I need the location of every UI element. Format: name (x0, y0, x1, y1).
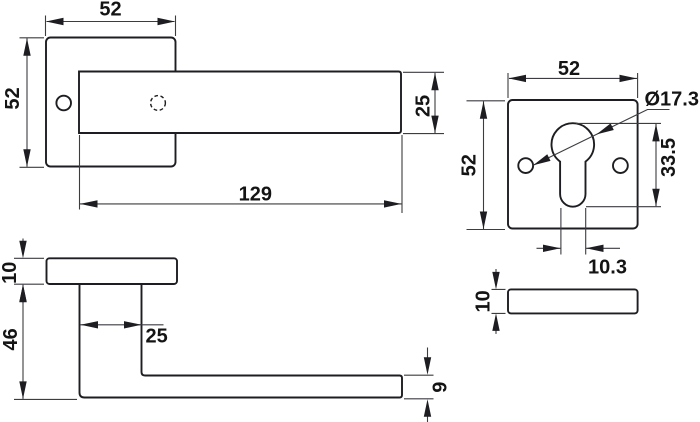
dim 25 right: extension lines (403, 72, 444, 133)
dim 33.5 right: up arrow (652, 124, 659, 141)
dim 52 left escutcheon: up arrow (480, 101, 487, 119)
dim 46: dimension line (22, 285, 24, 399)
screw hole left, escutcheon (518, 158, 533, 173)
dim 52 top: left arrow (46, 18, 64, 25)
leader arrow at euro circle edge (597, 123, 614, 134)
dim 10 escutcheon side: bottom arrow (outside, points up) (495, 330, 497, 334)
dim 52 left escutcheon: down arrow (480, 212, 487, 230)
rose square, front view (46, 38, 176, 167)
dim 46: up arrow (19, 285, 26, 303)
dim 52 top: dimension line (47, 21, 175, 23)
euro profile cylinder cutout (552, 123, 595, 206)
screw hole, rose front (56, 96, 71, 111)
dim 10 escutcheon side: top arrow (outside, points down) (495, 269, 497, 272)
rose plate, side view (47, 258, 178, 284)
spindle hole (dashed), lever front (151, 96, 166, 111)
lever handle profile, side view (80, 284, 403, 398)
svg-text:10.3: 10.3 (588, 257, 627, 279)
dim 52 top escutcheon: extension lines (508, 73, 638, 98)
svg-text:Ø17.3: Ø17.3 (645, 88, 699, 110)
dim 52 top escutcheon: dimension line (509, 77, 637, 79)
dim 46: down arrow (19, 381, 26, 399)
screw hole right, escutcheon (613, 158, 628, 173)
lever handle bar, front view (79, 72, 401, 134)
dim 52 left: extension lines (20, 38, 45, 168)
dim 10.3 bottom: left arrow (points right) (543, 245, 561, 252)
dim 129 bottom: left arrow (80, 200, 98, 207)
dim 52 left: down arrow (23, 149, 30, 167)
dim 10.3 bottom: extension lines (561, 208, 586, 255)
svg-text:9: 9 (430, 382, 452, 393)
leader arrow at screw hole (533, 154, 550, 165)
dim 52 left: dimension line (26, 38, 28, 167)
dim 25 right: up arrow (431, 73, 438, 91)
dim 129 bottom: right arrow (384, 200, 402, 207)
dim 46: bottom extension line (14, 398, 77, 400)
dim 52 top: right arrow (158, 18, 176, 25)
dim 52 left escutcheon: dimension line (483, 101, 485, 229)
svg-text:52: 52 (558, 58, 580, 80)
dim 52 left escutcheon: extension lines (467, 101, 506, 230)
dim 129 bottom: dimension line (80, 203, 402, 205)
dim 25 neck: left arrow (81, 321, 99, 328)
dim 10 escutcheon side: extension lines (492, 289, 506, 313)
dim 9 lever side: bottom arrow (outside, points up) (427, 416, 429, 422)
dim 52 left: up arrow (23, 38, 30, 56)
dim 25 neck: right arrow (124, 321, 142, 328)
dim 25 right: dimension line (434, 73, 436, 133)
svg-text:52: 52 (99, 0, 121, 20)
svg-text:129: 129 (239, 184, 272, 206)
dim 10.3 bottom: right arrow (points left) (586, 245, 604, 252)
svg-text:52: 52 (459, 154, 481, 176)
dim 33.5 right: extension lines (576, 123, 661, 206)
dim 10 rose side: top arrow (outside, points down) (22, 239, 24, 242)
dim 52 top escutcheon: right arrow (620, 75, 638, 82)
dim 9 lever side: top arrow (outside, points down) (427, 348, 429, 359)
dim 52 top: extension lines (46, 16, 176, 37)
dim 9 lever side: extension lines (404, 375, 434, 399)
dim 33.5 right: dimension line (655, 124, 657, 206)
leader line for dia 17.3 (533, 110, 669, 166)
svg-text:25: 25 (145, 325, 167, 347)
dim 25 neck: dimension line with tail (81, 324, 164, 326)
dim 25 right: down arrow (431, 116, 438, 134)
dim 33.5 right: down arrow (652, 189, 659, 207)
svg-text:33.5: 33.5 (658, 138, 680, 177)
dim 10.3 bottom: dimension line tails (537, 247, 621, 249)
svg-text:46: 46 (0, 328, 22, 350)
escutcheon plate, side view (508, 289, 638, 313)
svg-text:52: 52 (2, 87, 24, 109)
dim 10 rose side: bottom arrow (outside, points up) (22, 301, 24, 303)
svg-text:25: 25 (413, 95, 435, 117)
escutcheon square, front view (508, 100, 638, 229)
dim 52 top escutcheon: left arrow (509, 75, 527, 82)
dim 10 rose side: extension lines (14, 258, 44, 284)
dim 129 bottom: extension lines (80, 135, 403, 213)
svg-text:10: 10 (472, 290, 494, 312)
svg-text:10: 10 (0, 262, 21, 284)
